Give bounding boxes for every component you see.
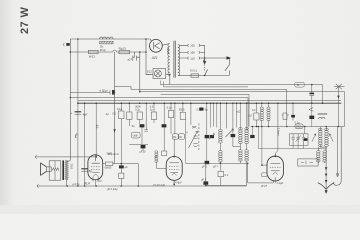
trimmer blob C7: [210, 135, 214, 138]
V3 cathode: [271, 171, 280, 175]
svg-text:μF 1: μF 1: [201, 177, 207, 181]
rectifier anodes: [153, 42, 159, 49]
svg-text:Si 0,1: Si 0,1: [190, 69, 198, 73]
V1 anode: [92, 155, 100, 163]
variable capacitor CV2: [193, 136, 197, 139]
speaker voice coil: [47, 167, 52, 172]
switch S2 pole: [225, 58, 229, 71]
svg-text:220: 220: [190, 44, 195, 48]
voltage selector vertical: [204, 45, 206, 58]
capacitor blob C6: [205, 161, 210, 164]
wire lamp right to heater: [166, 75, 170, 85]
svg-text:D12: D12: [100, 48, 106, 52]
wire drop x139.8 resistor R3: [137, 112, 142, 119]
capacitor C13 drop: [251, 127, 253, 135]
V3 grid: [270, 166, 281, 168]
svg-text:110: 110: [190, 56, 195, 60]
wire drop x114.6: [115, 52, 131, 164]
padder cap 2: [296, 134, 299, 146]
svg-text:20 μ 0,1 6: 20 μ 0,1 6: [108, 153, 119, 156]
svg-text:μF20: μF20: [139, 150, 146, 154]
switch S1 contact: [205, 70, 208, 76]
svg-text:≈0,1∕2,2μF: ≈0,1∕2,2μF: [153, 183, 166, 187]
capacitor blob C9: [203, 181, 208, 184]
wire drop x256.5 resistor R9: [256, 103, 258, 113]
heater stub a: [161, 81, 164, 87]
svg-text:27 W: 27 W: [19, 7, 31, 34]
V2 cathode: [170, 172, 178, 175]
speaker frame box: [49, 161, 61, 180]
wire drop x154 resistor R4: [153, 103, 155, 112]
wire drop x164.2: [163, 103, 165, 124]
svg-text:μ 0,7μ: μ 0,7μ: [73, 183, 80, 186]
diode section blob: [282, 113, 290, 120]
tap 110: [180, 57, 205, 59]
wire lamp left: [146, 74, 153, 76]
resistor R11: [119, 173, 124, 178]
speaker cone: [41, 163, 47, 176]
resistor R1: [119, 111, 124, 119]
lamp D12 box: [153, 69, 166, 79]
mains line: [205, 57, 227, 59]
antenna lead arrow: [338, 87, 340, 127]
mains plug arrow: [227, 56, 232, 60]
label box C8: [262, 173, 267, 176]
wire drop x216.8: [216, 103, 218, 127]
svg-text:AZ1: AZ1: [151, 56, 158, 60]
svg-text:4μF: 4μF: [83, 112, 88, 116]
wire drop to IFT coils: [240, 103, 246, 129]
rectifier tube AZ1 envelope: [150, 39, 163, 52]
transformer T1 primary winding: [178, 45, 180, 76]
cap tick: [144, 130, 148, 132]
pentode tube V3 envelope: [267, 156, 283, 181]
svg-text:1,1μF: 1,1μF: [276, 181, 283, 185]
HT line right: [140, 92, 345, 127]
wire drop x236.6: [236, 103, 238, 127]
svg-text:0,1μ: 0,1μ: [117, 108, 122, 111]
wire rectifier to transformer: [162, 44, 169, 46]
wire drop x232.9 capacitor C8: [232, 103, 234, 134]
wire drop x304.8: [304, 127, 306, 134]
V1 cathode: [92, 172, 100, 176]
bottom right block box: [298, 159, 318, 166]
svg-text:0,2μ: 0,2μ: [135, 108, 140, 111]
wire drop x129.3: [128, 103, 130, 112]
capacitor blob C4: [162, 124, 167, 127]
wire drop x146: [146, 39, 151, 75]
svg-text:0,3: 0,3: [112, 112, 116, 116]
resistor Rg13: [119, 50, 130, 53]
heater bus 1: [161, 85, 323, 104]
wire drop x313.7: [311, 85, 313, 104]
transformer T1 core: [174, 41, 175, 78]
svg-text:0,1: 0,1: [225, 173, 229, 177]
V1 grid: [91, 167, 101, 170]
lamp D12 bulb: [154, 70, 161, 77]
wire drop x182.9 resistor R7: [182, 103, 184, 112]
wire drop x220.4 / IF coil L2: [219, 103, 221, 129]
svg-text:Rö: Rö: [173, 135, 177, 139]
svg-text:5000: 5000: [135, 106, 141, 109]
wire drop x139.8: [139, 57, 141, 91]
antenna input terminal: [63, 43, 65, 46]
heater bus 2: [164, 86, 249, 88]
screen line with capacitor a27: [70, 90, 115, 95]
variable capacitor CV3: [193, 144, 197, 147]
counterweight hook: [334, 127, 342, 186]
node dots wire2: [139, 51, 141, 53]
wire drop x190.9: [190, 103, 192, 125]
output transformer winding: [65, 161, 68, 180]
heater bus 3: [131, 89, 287, 113]
svg-text:μF: μF: [125, 165, 128, 169]
svg-text:0W25: 0W25: [105, 166, 112, 170]
field winding zigzag: [52, 161, 59, 180]
V3 screen: [270, 163, 280, 165]
svg-text:0,3: 0,3: [150, 106, 154, 109]
wire drop x258.3: [257, 127, 259, 149]
IFT2 coil pair upper: [239, 128, 243, 130]
resistor R8: [218, 171, 224, 176]
wire horizontal y126.5: [251, 126, 345, 128]
padder cap 1: [291, 134, 294, 146]
wire middle horizontal: [186, 162, 247, 164]
RF coil L3: [261, 103, 263, 107]
svg-text:D12: D12: [147, 70, 153, 74]
wire top mains/HT line: [70, 38, 150, 40]
coil L1 grid choke: [155, 151, 158, 153]
wire fuse to switch: [199, 71, 230, 76]
wire drop x206.8: [206, 103, 208, 135]
electrolytic capacitor 4uF: [75, 111, 82, 113]
switch S1 dashed link: [204, 65, 206, 72]
wire transformer bottom to fuse: [178, 75, 191, 77]
wire left vertical 2: [77, 39, 79, 186]
wire drop x226.7: [226, 103, 228, 128]
IFT3 wires: [318, 127, 326, 164]
V2 grid cap: [173, 154, 175, 157]
trimmer blob C11: [304, 138, 308, 141]
svg-text:0,1: 0,1: [95, 125, 99, 129]
wire drop x213.3: [212, 103, 214, 126]
tuning arrow: [189, 131, 198, 148]
V2 grid: [169, 166, 179, 169]
svg-text:5μ: 5μ: [132, 124, 135, 128]
V1 stubs: [93, 177, 98, 186]
selector arrow: [203, 58, 206, 64]
chevron wire end: [35, 155, 37, 159]
svg-text:1,1μ: 1,1μ: [96, 179, 102, 183]
wave trap coil L5: [318, 113, 328, 114]
wire under loop: [206, 163, 247, 185]
svg-text:Rg13: Rg13: [119, 47, 127, 51]
osc arrow: [226, 129, 234, 137]
V3 cathode loop: [248, 163, 274, 183]
svg-text:W 27: W 27: [261, 184, 268, 188]
wire drop x96.2 to output tube: [95, 103, 97, 157]
fuse Si: [191, 74, 199, 77]
resistor R2: [127, 112, 132, 119]
svg-text:3,5mm: 3,5mm: [277, 128, 281, 136]
svg-text:Uέ8: Uέ8: [133, 134, 138, 138]
IFT joins: [233, 129, 248, 163]
wire x337.6: [336, 127, 339, 177]
indicator chain: [325, 147, 327, 189]
grid lead tube3: [275, 103, 278, 156]
capacitor C10: [291, 115, 295, 118]
V3 wires left: [262, 165, 275, 183]
resistor box R5: [162, 151, 167, 156]
variable capacitor CV1: [192, 127, 196, 129]
capacitor blob C3: [141, 145, 146, 148]
choke Dr winding: [100, 37, 114, 39]
node A junction dots left: [70, 51, 72, 53]
wire drop x210.5: [210, 103, 212, 127]
svg-text:μF 0,1∕2μ: μF 0,1∕2μ: [107, 187, 118, 191]
wire osc bottom: [258, 145, 326, 148]
svg-text:0,2: 0,2: [252, 109, 256, 112]
electrolytic capacitor 8uF: [81, 168, 88, 170]
V3 grid cap: [274, 154, 276, 156]
IFT3 arrows: [312, 134, 316, 142]
tap 150: [180, 51, 205, 53]
wire into rectifier: [150, 39, 151, 41]
RF coil L4: [268, 103, 270, 107]
IFT3 coil pair lower: [316, 151, 320, 153]
capacitor blob C14: [199, 108, 203, 111]
svg-text:4μ: 4μ: [106, 112, 109, 116]
chassis bottom bus: [37, 185, 247, 187]
svg-text:150: 150: [190, 51, 195, 55]
tap 220: [180, 44, 205, 46]
wire drop x84.6: [84, 103, 86, 186]
capacitor trim on heater bus: [295, 82, 304, 87]
triode tube V1 output envelope: [88, 155, 103, 180]
V2 screen: [169, 162, 179, 164]
wire V1 top left: [36, 156, 97, 158]
resistor tap box: [309, 108, 314, 112]
chassis bus (dark): [78, 102, 341, 104]
wire drop x174.9 grid cap lead: [173, 103, 176, 156]
svg-text:5000: 5000: [179, 108, 185, 111]
wire drop x171 resistor R6: [170, 103, 172, 110]
IFT2 coil pair lower: [239, 150, 243, 152]
wires transformer: [65, 161, 70, 186]
capacitor blob C2: [140, 124, 145, 127]
IFT1 coil upper: [219, 129, 223, 131]
IFT1 coil lower: [219, 151, 223, 153]
svg-text:5000: 5000: [296, 125, 302, 128]
wire drop x121.3: [120, 103, 122, 111]
svg-text:μF 5: μF 5: [202, 165, 208, 169]
wire left vertical: [69, 39, 71, 161]
pentode tube V2 envelope: [166, 157, 182, 181]
wire bend to capacitor C3: [129, 143, 148, 145]
svg-text:1 4 4μF: 1 4 4μF: [173, 180, 182, 184]
resistor R10: [105, 162, 112, 165]
earth funnel: [318, 183, 335, 190]
oval label EK2: [131, 132, 140, 138]
antenna symbol: [334, 84, 345, 89]
tuning gang dashed link: [198, 124, 200, 151]
label box top right: [295, 124, 303, 128]
transformer T1 secondary winding: [168, 44, 170, 76]
choke Dr core hatch: [100, 41, 114, 44]
wire drop x146.2: [145, 103, 147, 129]
padder cap 3: [302, 134, 305, 146]
wire x113.5 arrow: [113, 129, 115, 132]
svg-text:2000: 2000: [70, 164, 73, 170]
output transformer core: [62, 160, 64, 180]
svg-text:1μ: 1μ: [154, 156, 158, 159]
value box pair: [172, 134, 178, 139]
wire second line: [70, 50, 146, 52]
svg-text:W13: W13: [89, 55, 96, 59]
capacitor blob C5: [205, 135, 210, 138]
svg-text:0,1μ: 0,1μ: [167, 107, 172, 110]
svg-text:μF ?: μF ?: [213, 165, 218, 168]
svg-text:+: +: [71, 111, 73, 115]
svg-text:a 27: a 27: [103, 89, 108, 93]
AVC line: [78, 100, 341, 102]
capacitor blob C12: [119, 165, 124, 168]
IFT3 coil pair upper: [318, 128, 322, 130]
svg-text:0,5: 0,5: [248, 114, 252, 118]
svg-text:AL4: AL4: [83, 181, 90, 185]
oscillator box: [289, 134, 308, 146]
wire x138.3: [121, 164, 138, 186]
svg-text:a27: a27: [128, 57, 133, 61]
resistor W13: [89, 50, 99, 53]
V2 stub: [173, 180, 175, 184]
anode supply line: [70, 98, 248, 130]
capacitor C1 stub: [133, 52, 140, 61]
heater bus 4: [161, 94, 250, 126]
V2 side wire: [165, 167, 167, 169]
